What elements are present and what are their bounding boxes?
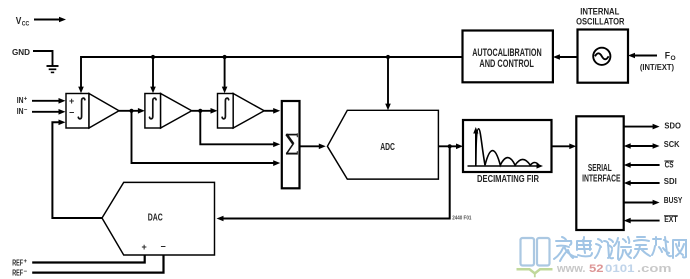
svg-text:SDI: SDI	[664, 177, 677, 186]
wire feedforward 2 to summer	[200, 111, 280, 147]
wire oscillator to autocalibration	[553, 54, 578, 60]
decimating FIR	[463, 120, 552, 185]
svg-text:DAC: DAC	[148, 212, 163, 223]
junction	[448, 144, 452, 148]
wire integrator3 to summer	[264, 108, 280, 114]
node FO	[628, 50, 676, 72]
svg-text:AND CONTROL: AND CONTROL	[479, 58, 534, 70]
watermark book icon	[521, 238, 550, 266]
svg-text:+: +	[142, 242, 147, 252]
wire control bus from autocalibration	[81, 56, 463, 58]
svg-text:.com: .com	[637, 263, 672, 275]
wire summer to ADC	[300, 144, 326, 150]
wire ADC output to DAC	[217, 146, 450, 221]
wire ADC to decimating FIR	[438, 144, 463, 150]
svg-text:0101: 0101	[605, 263, 635, 275]
wire drop to integrator 1	[78, 56, 84, 93]
ground	[47, 66, 59, 72]
svg-text:F: F	[665, 50, 670, 61]
svg-text:REF: REF	[12, 268, 23, 277]
svg-text:ADC: ADC	[380, 142, 395, 153]
svg-text:SCK: SCK	[664, 140, 680, 149]
svg-text:INTERFACE: INTERFACE	[582, 174, 621, 185]
wire drop to integrator 2	[150, 57, 156, 93]
integrator U1	[66, 94, 119, 129]
svg-text:OSCILLATOR: OSCILLATOR	[576, 16, 625, 27]
node BUSY	[624, 196, 683, 205]
svg-text:(INT/EXT): (INT/EXT)	[640, 62, 674, 72]
svg-text:52: 52	[589, 263, 604, 275]
autocalibration and control U4	[463, 31, 553, 83]
svg-text:SDO: SDO	[664, 121, 681, 130]
node VCC	[16, 16, 66, 28]
integrator U2	[145, 94, 192, 129]
integrator U3	[218, 94, 265, 129]
DAC	[102, 182, 215, 255]
svg-text:−: −	[24, 107, 28, 113]
node GND	[12, 48, 53, 66]
junction	[223, 55, 227, 59]
watermark book base	[517, 269, 553, 277]
svg-text:+: +	[24, 259, 28, 265]
svg-text:DECIMATING FIR: DECIMATING FIR	[477, 174, 539, 185]
node SDO	[624, 121, 681, 130]
serial interface	[576, 116, 623, 230]
junction	[386, 55, 390, 59]
summer	[282, 101, 300, 188]
svg-text:CS: CS	[665, 160, 674, 169]
wire integrator1 to integrator2	[119, 108, 145, 114]
wire feedforward 1 to summer	[132, 111, 281, 166]
node IN-	[17, 107, 66, 116]
node REF+	[12, 255, 145, 267]
node IN+	[17, 96, 66, 105]
svg-text:CC: CC	[22, 20, 30, 27]
svg-text:BUSY: BUSY	[664, 196, 683, 205]
junction	[151, 55, 155, 59]
svg-text:2440 F01: 2440 F01	[452, 216, 471, 222]
node SCK	[624, 140, 680, 149]
svg-text:+: +	[69, 96, 74, 106]
wire DAC output to integrator 1	[52, 120, 102, 219]
wire drop to ADC	[385, 57, 391, 110]
svg-text:www.: www.	[556, 263, 586, 275]
internal oscillator U5	[576, 5, 628, 82]
svg-text:−: −	[24, 269, 28, 275]
watermark chinese text 家电维修资料网	[554, 237, 686, 261]
junction	[129, 109, 133, 113]
wire FIR to serial interface	[552, 144, 577, 150]
svg-text:REF: REF	[12, 258, 23, 267]
svg-text:GND: GND	[12, 48, 30, 57]
svg-text:−: −	[69, 108, 74, 118]
node SDI	[624, 177, 677, 186]
node REF-	[12, 255, 163, 277]
wire integrator2 to integrator3	[192, 108, 218, 114]
watermark url www.520101.com	[556, 263, 672, 275]
svg-text:−: −	[161, 242, 166, 252]
svg-text:+: +	[24, 97, 28, 103]
node CS	[624, 160, 674, 169]
node EXT	[624, 215, 678, 224]
wire drop to integrator 3	[222, 57, 228, 93]
junction	[198, 109, 202, 113]
ADC	[327, 110, 438, 179]
